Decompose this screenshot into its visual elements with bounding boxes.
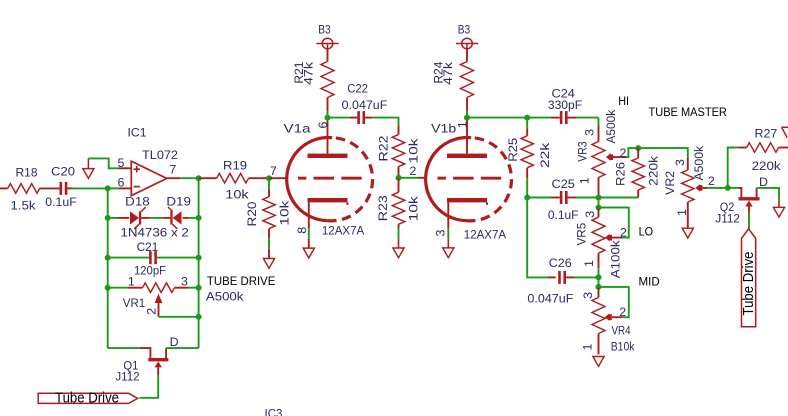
wire node C to Q2 source — [728, 187, 739, 189]
svg-text:5: 5 — [118, 156, 125, 170]
wire VR4 pin 3 stub — [598, 277, 600, 287]
resistor R24 — [431, 49, 473, 118]
svg-text:1: 1 — [581, 344, 595, 351]
node A junction — [105, 185, 111, 191]
svg-text:D18: D18 — [125, 195, 150, 209]
svg-text:MID: MID — [639, 275, 660, 289]
ground (V1a cathode) — [303, 239, 314, 258]
node C26 / VR5 pin1 / VR4 pin3 — [596, 274, 602, 280]
resistor R18 — [0, 165, 60, 212]
wire C25 row to R26 bottom — [599, 197, 639, 199]
svg-text:C21: C21 — [137, 240, 159, 254]
svg-text:Tube Drive: Tube Drive — [55, 391, 119, 407]
svg-text:R23: R23 — [376, 195, 390, 221]
junction R25 bottom / C25 row — [524, 195, 530, 201]
svg-text:220k: 220k — [752, 159, 782, 173]
svg-text:V1b: V1b — [431, 122, 456, 136]
svg-text:220k: 220k — [647, 155, 661, 186]
svg-text:R22: R22 — [376, 135, 390, 161]
svg-text:A500k: A500k — [604, 109, 618, 143]
svg-text:V1a: V1a — [284, 122, 311, 136]
svg-text:3: 3 — [581, 292, 595, 299]
svg-text:7: 7 — [270, 164, 277, 178]
wire node to V1b grid — [399, 177, 419, 179]
ground (R23) — [393, 248, 404, 258]
svg-text:Tube Drive: Tube Drive — [741, 252, 757, 316]
svg-text:10k: 10k — [225, 188, 249, 202]
wire C22 to R22 — [372, 118, 399, 126]
svg-text:3: 3 — [181, 275, 188, 289]
svg-text:22k: 22k — [538, 142, 552, 168]
wire VR1 pin 2 to right rail — [159, 316, 199, 318]
svg-text:1: 1 — [675, 209, 689, 216]
svg-text:12AX7A: 12AX7A — [322, 224, 365, 238]
svg-text:R25: R25 — [506, 138, 520, 162]
junction right rail / C21 — [196, 255, 202, 261]
junction left rail / C21 — [105, 255, 111, 261]
svg-text:TL072: TL072 — [142, 148, 178, 162]
wire Q2 gate to flag — [748, 213, 750, 229]
svg-text:R26: R26 — [613, 162, 627, 186]
svg-text:D: D — [170, 335, 179, 349]
svg-text:D: D — [759, 175, 768, 189]
resistor R27 — [739, 126, 788, 173]
wire pin 7 to node B — [180, 177, 199, 179]
wire C25 row right — [576, 197, 599, 199]
svg-text:3: 3 — [583, 211, 597, 218]
tube V1b (12AX7A) — [426, 118, 512, 242]
ground (R20) — [263, 249, 274, 268]
potentiometer VR4 — [581, 287, 636, 355]
transistor Q2 (J112 JFET) — [715, 175, 768, 225]
junction left rail / diode row — [105, 215, 111, 221]
svg-text:VR5: VR5 — [575, 223, 589, 246]
svg-text:10k: 10k — [278, 200, 292, 226]
svg-text:330pF: 330pF — [548, 98, 583, 112]
wire node A to op-amp pin 6 — [108, 187, 119, 189]
resistor R25 — [506, 118, 552, 198]
node B junction — [196, 175, 202, 181]
svg-text:A500k: A500k — [692, 145, 706, 180]
wire left rail down to C26 — [527, 198, 548, 278]
pin 7 of V1a (grid) — [269, 177, 288, 179]
resistor R26 — [613, 148, 660, 197]
node C junction — [725, 185, 731, 191]
svg-text:1: 1 — [582, 260, 596, 267]
svg-text:3: 3 — [434, 230, 448, 237]
junction right rail / diode row — [196, 215, 202, 221]
svg-text:47k: 47k — [302, 61, 316, 85]
wire V1b plate to C24 — [467, 117, 527, 119]
svg-text:A500k: A500k — [206, 289, 244, 303]
resistor R20 — [245, 178, 292, 249]
wire Q2 drain to ground — [757, 188, 779, 201]
resistor R23 — [376, 178, 421, 248]
wire V1b cathode to ground — [447, 229, 449, 239]
svg-text:R19: R19 — [223, 159, 247, 173]
svg-text:J112: J112 — [115, 370, 139, 384]
ground (VR4) — [593, 357, 604, 367]
potentiometer VR2 — [663, 145, 715, 228]
transistor Q1 (J112 JFET) — [115, 335, 178, 384]
svg-text:R18: R18 — [16, 165, 38, 179]
svg-text:IC1: IC1 — [128, 125, 147, 139]
svg-text:3: 3 — [673, 159, 687, 166]
svg-text:LO: LO — [639, 225, 654, 239]
svg-text:2: 2 — [410, 164, 417, 178]
wire pin 5 hook — [88, 158, 118, 168]
power B3 (right) — [456, 22, 478, 49]
node VR3 pin1 / VR5 pin3 — [596, 195, 602, 201]
svg-text:TUBE MASTER: TUBE MASTER — [649, 105, 727, 119]
ground (op-amp pin 5) — [83, 158, 94, 178]
wire diode row left — [108, 217, 118, 219]
junction VR5 bypass tee — [596, 205, 602, 211]
svg-text:B3: B3 — [318, 22, 330, 36]
svg-text:1: 1 — [128, 275, 135, 289]
capacitor C22 — [328, 82, 388, 125]
svg-text:1: 1 — [456, 121, 470, 128]
svg-text:0.047uF: 0.047uF — [342, 98, 388, 112]
resistor R19 — [199, 159, 269, 202]
svg-text:2: 2 — [144, 308, 158, 315]
junction VR4 bypass tee — [596, 284, 602, 290]
wire right rail — [198, 178, 200, 348]
wire C21 row right — [157, 257, 199, 259]
power B3 (left) — [316, 22, 338, 49]
ground (top right partial) — [782, 127, 788, 137]
svg-text:VR1: VR1 — [123, 296, 145, 310]
svg-text:IC3: IC3 — [265, 407, 283, 416]
wire C24 down to VR3 — [598, 118, 600, 126]
wire Q1 gate down — [140, 375, 159, 397]
svg-text:R27: R27 — [755, 126, 778, 140]
svg-text:C20: C20 — [51, 164, 75, 178]
svg-text:1.5k: 1.5k — [11, 199, 37, 213]
svg-text:8: 8 — [295, 227, 309, 234]
svg-text:J112: J112 — [715, 211, 740, 225]
svg-text:0.047uF: 0.047uF — [527, 292, 573, 306]
svg-text:0.1uF: 0.1uF — [548, 208, 579, 222]
svg-text:10k: 10k — [407, 138, 421, 164]
svg-text:B10k: B10k — [611, 339, 635, 353]
wire to Q1 source — [108, 347, 140, 349]
wire left rail — [107, 188, 109, 348]
svg-text:R20: R20 — [245, 201, 259, 226]
svg-text:VR4: VR4 — [612, 324, 631, 338]
svg-text:12AX7A: 12AX7A — [464, 228, 507, 242]
potentiometer VR5 — [575, 208, 628, 279]
wire VR5 pin 3 stub — [598, 198, 600, 208]
svg-text:3: 3 — [582, 129, 596, 136]
node V1a plate — [325, 115, 331, 121]
junction right rail / VR1 pin 2 — [196, 314, 202, 320]
resistor R21 — [292, 49, 334, 118]
svg-text:D19: D19 — [166, 195, 191, 209]
svg-text:47k: 47k — [441, 61, 455, 85]
wire wiper row to VR2 — [638, 148, 688, 157]
wire C20 to node A — [73, 187, 108, 189]
wire VR4 bypass — [599, 287, 629, 317]
wire VR1 pin 3 — [188, 287, 199, 289]
node R19 out junction — [266, 175, 272, 181]
op-amp U1 (IC1 TL072) — [118, 125, 179, 195]
node V1b plate — [464, 115, 470, 121]
wire VR1 pin 1 — [108, 287, 128, 289]
wire VR2 wiper to node C — [707, 187, 728, 189]
capacitor C25 — [548, 177, 579, 222]
pin 7 stub — [167, 177, 180, 179]
potentiometer VR3 — [575, 109, 626, 197]
potentiometer VR1 — [123, 275, 188, 317]
net flag Tube Drive (left) — [38, 391, 138, 407]
diode D19 (zener) — [164, 195, 192, 229]
svg-text:1: 1 — [578, 177, 592, 184]
svg-text:10k: 10k — [407, 195, 421, 221]
junction left rail / VR1 pin 1 — [105, 285, 111, 291]
wire Q1 drain to right rail — [166, 347, 199, 349]
svg-text:C22: C22 — [347, 82, 368, 96]
svg-text:7: 7 — [169, 163, 176, 177]
wire VR5 bypass — [599, 208, 629, 238]
svg-text:2: 2 — [708, 174, 715, 188]
pin 6 stub — [118, 187, 131, 189]
ground (V1b cathode) — [443, 248, 454, 258]
svg-text:C25: C25 — [552, 177, 576, 191]
tube V1a (12AX7A) — [284, 118, 373, 238]
capacitor C24 — [527, 86, 598, 124]
net flag Tube Drive (right) — [741, 229, 757, 327]
wire V1a cathode to ground — [308, 229, 310, 239]
junction right rail / VR1 pin 3 — [196, 285, 202, 291]
svg-text:C26: C26 — [549, 256, 572, 270]
wire C25 row left — [527, 197, 551, 199]
wire C21 row left — [108, 257, 149, 259]
ground (Q2 drain) — [773, 207, 784, 217]
svg-text:A100k: A100k — [608, 240, 622, 279]
svg-text:VR2: VR2 — [663, 171, 677, 195]
svg-text:HI: HI — [618, 94, 629, 108]
svg-text:6: 6 — [118, 175, 125, 189]
svg-text:0.1uF: 0.1uF — [45, 195, 77, 209]
svg-text:TUBE DRIVE: TUBE DRIVE — [207, 274, 276, 288]
svg-text:6: 6 — [316, 122, 330, 129]
wire node C up to R27 — [728, 148, 739, 188]
wire between diodes — [150, 217, 164, 219]
resistor R22 — [376, 126, 420, 178]
svg-text:2: 2 — [620, 146, 627, 160]
pin 5 stub — [118, 167, 131, 169]
ground (VR2) — [682, 228, 693, 238]
node R22/R23 — [396, 175, 402, 181]
svg-text:B3: B3 — [458, 22, 470, 36]
diode D18 (zener) — [118, 195, 150, 229]
pin 2 of V1b (grid) — [418, 177, 427, 179]
wire diode row right — [189, 217, 199, 219]
svg-text:VR3: VR3 — [575, 141, 589, 161]
node VR3 wiper / R26 — [635, 145, 641, 151]
capacitor C20 — [45, 164, 77, 209]
capacitor C26 — [527, 256, 598, 306]
node R25 top — [524, 115, 530, 121]
capacitor C21 — [134, 240, 166, 277]
svg-text:120pF: 120pF — [134, 263, 166, 277]
wire VR3 wiper up to row — [627, 148, 639, 157]
svg-text:1N4736 x 2: 1N4736 x 2 — [120, 225, 189, 239]
